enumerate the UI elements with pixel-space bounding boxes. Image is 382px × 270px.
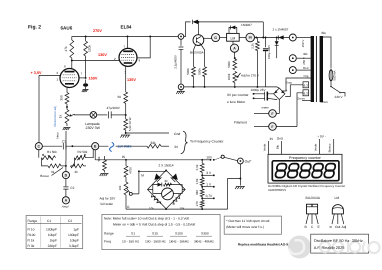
brace to frequency counter — [181, 131, 225, 153]
label Rosso — [40, 168, 63, 179]
svg-text:BU2X03A: BU2X03A — [190, 51, 205, 55]
svg-text:Verde: Verde — [263, 143, 267, 151]
svg-text:3,3µ/400V: 3,3µ/400V — [174, 55, 178, 69]
label IN node — [122, 155, 126, 159]
wire B+ top rail — [72, 36, 178, 38]
label 11V RMS — [118, 144, 133, 148]
wire coupling to EL84 grid — [72, 60, 120, 62]
svg-text:33k: 33k — [151, 141, 157, 145]
svg-text:47µ/160V: 47µ/160V — [107, 106, 121, 110]
svg-text:Distorsione adj: Distorsione adj — [53, 106, 57, 127]
wire IN to rectifier — [255, 37, 290, 39]
svg-text:130V: 130V — [98, 53, 107, 57]
svg-text:C2: C2 — [70, 186, 74, 190]
svg-text:Ampl: Ampl — [61, 205, 69, 209]
diode top feed 1N4007 — [193, 20, 199, 24]
ground screen bypass — [82, 90, 89, 93]
svg-text:10kpF: 10kpF — [48, 233, 57, 237]
wire out down — [239, 164, 241, 186]
svg-text:2k: 2k — [165, 179, 169, 183]
svg-text:+ 9V -: + 9V - — [317, 135, 326, 139]
attenuator tap 10V — [201, 159, 215, 161]
svg-text:3k: 3k — [75, 170, 79, 174]
label 10V tap — [206, 156, 213, 160]
svg-text:LM: LM — [231, 37, 236, 41]
svg-text:C2: C2 — [68, 219, 72, 223]
pot R1 50k — [39, 150, 57, 160]
label EL84 — [121, 25, 132, 30]
wire 6AU6 grid — [39, 74, 60, 76]
label 1000u 25V — [251, 88, 267, 92]
resistor 6,6k — [195, 160, 204, 176]
winding 6,3 a — [303, 82, 309, 88]
svg-text:Fig. 2: Fig. 2 — [28, 25, 41, 31]
voltage label 130V — [98, 53, 107, 57]
wire primary top — [323, 37, 331, 69]
wire counter in — [263, 141, 269, 154]
wire PSU bottom rail — [184, 86, 279, 88]
svg-text:Range: Range — [104, 232, 114, 236]
frequency counter module — [268, 154, 342, 183]
svg-text:5,6k 10 W: 5,6k 10 W — [128, 117, 132, 131]
transformer T1 core — [311, 36, 323, 102]
diode 1N914 a — [154, 174, 161, 183]
svg-text:2,2k: 2,2k — [251, 43, 255, 49]
svg-text:D: D — [65, 173, 68, 177]
resistor 10k bridge left — [149, 194, 161, 211]
svg-text:1k: 1k — [59, 114, 63, 118]
svg-text:Out: Out — [335, 225, 340, 229]
svg-text:680: 680 — [195, 190, 199, 195]
svg-text:To Frequency Counter: To Frequency Counter — [190, 140, 224, 144]
svg-text:100kpF: 100kpF — [46, 228, 57, 232]
svg-text:BU2X03A: BU2X03A — [306, 196, 321, 200]
svg-text:330pF: 330pF — [48, 244, 57, 248]
svg-text:2 x 1N4007: 2 x 1N4007 — [273, 28, 289, 32]
svg-text:R100: R100 — [28, 233, 36, 237]
label Distorsione adj — [53, 106, 57, 127]
resistor 10k bridge right — [171, 194, 185, 211]
label 6AU6 — [61, 26, 73, 31]
svg-text:X10: X10 — [152, 232, 158, 236]
svg-text:500k: 500k — [198, 68, 202, 75]
svg-text:Range: Range — [28, 219, 38, 223]
potentiometer 1k distorsione — [59, 107, 75, 126]
svg-text:Verde: Verde — [314, 143, 318, 151]
label 2 X 1N914 — [159, 163, 174, 167]
svg-text:Out*: Out* — [245, 160, 252, 164]
meter bridge diamond — [148, 170, 186, 209]
diode 1N4007 over LM — [229, 23, 252, 34]
label C1 — [62, 140, 66, 144]
resistor 3k left — [42, 158, 66, 174]
svg-text:meter: meter — [262, 105, 270, 109]
svg-text:Adj: Adj — [342, 225, 347, 229]
svg-text:R 3k: R 3k — [28, 244, 35, 248]
svg-text:Gray: Gray — [286, 81, 293, 85]
wire secondary 250V top — [297, 37, 311, 39]
svg-text:G: G — [214, 36, 217, 40]
resistor 2k bridge — [148, 179, 186, 193]
resistor 4700 — [124, 160, 133, 182]
svg-text:250 V: 250 V — [301, 40, 305, 48]
voltage label 270V — [93, 29, 102, 33]
node ground junction — [125, 132, 127, 134]
svg-text:Blk: Blk — [304, 52, 309, 56]
svg-text:270: 270 — [195, 201, 199, 206]
svg-text:C1: C1 — [62, 140, 66, 144]
svg-text:10k: 10k — [118, 185, 122, 190]
attenuator tap 3V — [201, 171, 215, 176]
voltage label +3,5V — [31, 71, 43, 75]
svg-text:Gnd: Gnd — [174, 132, 180, 136]
svg-text:100k: 100k — [227, 73, 231, 80]
svg-text:Hz-50MHz Digital LCD Crystal O: Hz-50MHz Digital LCD Crystal Oscillator … — [268, 184, 345, 188]
svg-text:R2 50k: R2 50k — [78, 150, 88, 154]
diode HV 1N4007 b — [275, 38, 279, 59]
svg-text:X100: X100 — [175, 232, 183, 236]
label Filament — [234, 120, 247, 124]
svg-text:Bianco: Bianco — [328, 143, 332, 152]
node 6AU6 screen — [79, 77, 87, 79]
resistor 5,6k 10W — [124, 115, 132, 133]
svg-text:M: M — [141, 174, 144, 178]
note out max box — [224, 216, 281, 234]
resistor 56 EL84 cathode — [118, 66, 128, 115]
sine source symbol — [110, 142, 114, 151]
resistor 270 — [195, 198, 204, 209]
svg-text:B: B — [94, 144, 97, 148]
resistor 500k adj — [227, 59, 237, 70]
svg-text:Freq: Freq — [104, 240, 111, 244]
ground PSU rail — [176, 84, 185, 94]
capacitor filter b — [253, 96, 278, 109]
svg-text:1,8k: 1,8k — [195, 178, 199, 184]
svg-text:120k: 120k — [88, 45, 92, 52]
svg-text:0,7V: 0,7V — [206, 194, 213, 198]
svg-text:47k: 47k — [64, 46, 68, 52]
svg-text:Filament: Filament — [234, 120, 247, 124]
svg-text:135V: 135V — [127, 78, 136, 82]
svg-text:Adj for 10V: Adj for 10V — [100, 197, 117, 201]
terminal G — [204, 33, 220, 41]
attenuator tap 0,7V — [201, 194, 215, 199]
pot R2 50k — [75, 150, 94, 160]
svg-text:Oscillatore BF 50 Hz- 30kHz: Oscillatore BF 50 Hz- 30kHz — [314, 238, 363, 243]
terminal A out — [61, 197, 70, 209]
attenuator tap 1V — [201, 182, 215, 187]
notes box — [102, 214, 220, 249]
svg-text:9V per counter: 9V per counter — [227, 93, 250, 97]
svg-text:4700: 4700 — [129, 167, 133, 174]
svg-text:Org: Org — [304, 74, 309, 78]
svg-text:3,3kpF: 3,3kpF — [69, 244, 79, 248]
resistor 2,2k — [251, 38, 260, 87]
wire IN rail — [105, 159, 203, 161]
svg-text:10 - 160 Hz: 10 - 160 Hz — [122, 240, 139, 244]
terminal D — [62, 166, 69, 179]
wire grid to node C — [38, 75, 40, 143]
svg-text:6,3: 6,3 — [304, 92, 309, 96]
node 6AU6 plate — [71, 60, 73, 62]
package BU2X03A — [305, 204, 321, 229]
svg-text:Rosso: Rosso — [40, 174, 49, 178]
svg-text:Red: Red — [303, 66, 309, 70]
label BU2X03A pkg — [306, 196, 321, 200]
lamp Lampada 230V 3W — [85, 112, 101, 130]
wire secondary green — [297, 97, 311, 101]
resistor 500k right — [198, 45, 207, 87]
svg-text:56: 56 — [118, 95, 122, 99]
svg-text:A: A — [65, 199, 68, 203]
label Adj for 10V — [100, 197, 117, 207]
diode HV 1N4007 a — [278, 35, 283, 39]
wire pot wiper to lamp — [75, 113, 91, 116]
label M node — [141, 174, 144, 178]
svg-text:10V: 10V — [206, 156, 213, 160]
svg-text:10k: 10k — [180, 207, 185, 211]
wire bridge feeds — [0, 0, 1, 1]
resistor 50k to ground — [95, 150, 108, 176]
svg-text:Note: Meter full scale= 10 vo: Note: Meter full scale= 10 volt Out & st… — [104, 217, 189, 221]
svg-text:C1: C1 — [47, 219, 51, 223]
svg-text:C: C — [37, 144, 40, 148]
meter movement M — [162, 188, 174, 200]
svg-text:Blu: Blu — [322, 31, 327, 35]
svg-text:* Out max 11 Volt open circuit: * Out max 11 Volt open circuit — [226, 219, 269, 223]
svg-text:6,6k: 6,6k — [195, 164, 199, 170]
label aliexpress — [268, 184, 345, 192]
svg-text:100µ 400V: 100µ 400V — [267, 45, 271, 59]
svg-text:Meter on = 0db = 5 Volt Out &: Meter on = 0db = 5 Volt Out & step di 1,… — [113, 222, 195, 226]
capacitor C1 — [42, 143, 91, 150]
svg-text:A.F. Rinaldo 2025: A.F. Rinaldo 2025 — [314, 245, 345, 250]
potentiometer 100k Adj270V — [227, 72, 260, 87]
label 2 x 1N4007 — [273, 28, 289, 32]
svg-text:R 10: R 10 — [28, 228, 35, 232]
bridge rectifier filament — [274, 88, 288, 99]
label Blk — [304, 52, 309, 56]
svg-text:1kHz - 16kHz: 1kHz - 16kHz — [169, 240, 189, 244]
capacitor 100u400V — [263, 37, 271, 87]
wire M to bridge — [139, 170, 167, 172]
wire counter gnd — [276, 141, 282, 154]
ground out jack — [235, 187, 245, 190]
svg-text:270V: 270V — [93, 29, 102, 33]
tube EL84 V2 — [114, 37, 141, 75]
wire Gnd to counter — [126, 132, 181, 136]
svg-text:Adj for 270 V: Adj for 270 V — [241, 74, 260, 78]
label 250V a — [301, 40, 305, 48]
svg-text:Gnd: Gnd — [277, 137, 283, 141]
svg-text:2 X 1N914: 2 X 1N914 — [159, 163, 174, 167]
svg-text:1kpF: 1kpF — [50, 238, 57, 242]
svg-text:500k: 500k — [186, 68, 190, 75]
svg-text:ALIEXPRESS: ALIEXPRESS — [268, 188, 286, 192]
wire EL84 screen — [137, 37, 150, 58]
svg-text:In: In — [330, 225, 333, 229]
svg-text:R 1k: R 1k — [28, 238, 35, 242]
wire secondary org — [282, 74, 310, 91]
ground 1k pot — [63, 128, 71, 131]
switch mains — [330, 81, 345, 99]
regulator LM U1 — [227, 33, 240, 41]
wire top feed — [197, 21, 263, 38]
terminal HV3 — [289, 67, 296, 74]
svg-text:150V: 150V — [89, 77, 98, 81]
fuse 500mA — [329, 70, 337, 81]
label Blu — [322, 31, 327, 35]
svg-text:Replica modificata Heathkit AG: Replica modificata Heathkit AG-9A) — [238, 242, 291, 246]
terminal A — [230, 41, 238, 59]
terminal F filament 1 — [254, 100, 279, 118]
svg-text:Nero: Nero — [56, 132, 60, 139]
label LM pkg — [335, 196, 340, 200]
label replica — [238, 242, 291, 246]
svg-text:X1: X1 — [131, 232, 135, 236]
wire secondary gray — [285, 81, 303, 97]
svg-text:Blu: Blu — [276, 145, 280, 150]
svg-text:10kpF: 10kpF — [70, 238, 79, 242]
svg-text:230V 3W: 230V 3W — [86, 126, 101, 130]
svg-text:390: 390 — [59, 95, 63, 101]
terminal B — [92, 143, 99, 150]
svg-text:full scale: full scale — [101, 202, 114, 206]
svg-text:50k: 50k — [97, 156, 101, 161]
label +9V- — [317, 135, 326, 139]
wire counter +9 — [314, 139, 320, 154]
wire out to G rail — [228, 179, 241, 210]
svg-text:Green: Green — [297, 97, 305, 101]
package LM317 — [330, 205, 347, 229]
svg-text:3k: 3k — [51, 170, 55, 174]
resistor 120k — [84, 37, 92, 78]
svg-text:+ 3,5V: + 3,5V — [31, 71, 43, 75]
label 9V per counter — [227, 93, 255, 104]
wire bridge bottom — [165, 208, 167, 210]
table ranges — [26, 216, 83, 249]
transistor BU2X03A Q1 — [190, 22, 205, 55]
svg-text:6AU6: 6AU6 — [61, 26, 73, 31]
voltage label 135V — [127, 78, 136, 82]
resistor 390 cathode — [59, 88, 69, 108]
svg-text:10k: 10k — [149, 207, 154, 211]
svg-text:Brwn: Brwn — [321, 100, 328, 104]
svg-text:Frequency counter: Frequency counter — [289, 156, 321, 160]
resistor 1,8k — [195, 175, 204, 186]
svg-text:100kpF: 100kpF — [68, 233, 79, 237]
label Nero — [56, 132, 60, 139]
wire lamp to cap — [97, 114, 108, 116]
terminal HV1 — [289, 34, 296, 41]
terminal C — [35, 143, 42, 150]
connector B+ feedthrough — [178, 34, 184, 40]
svg-text:A: A — [233, 46, 236, 50]
tube 6AU6 V1 — [57, 61, 83, 88]
svg-text:250 V: 250 V — [302, 57, 306, 65]
capacitor C2 — [63, 179, 74, 197]
svg-text:100 - 1600 Hz: 100 - 1600 Hz — [145, 240, 166, 244]
label IN Gnd — [270, 137, 283, 141]
svg-text:500 mA: 500 mA — [333, 70, 337, 80]
wire counter -9 — [328, 139, 334, 154]
resistor 47k — [64, 37, 74, 61]
svg-text:1µF: 1µF — [73, 228, 79, 232]
svg-text:R1 50k: R1 50k — [47, 150, 57, 154]
svg-text:e luce Meter: e luce Meter — [227, 100, 246, 104]
connector Out — [224, 157, 252, 164]
voltage label 150V — [89, 77, 98, 81]
rotary selector O — [216, 155, 225, 159]
capacitor filter a — [253, 92, 274, 96]
wire secondary 250V bottom — [297, 57, 311, 59]
wire G to LM — [220, 37, 227, 39]
watermark logo — [288, 236, 311, 259]
resistor 3k right — [71, 158, 87, 174]
winding 6,3 b — [303, 90, 309, 96]
wire pot feedback — [65, 131, 67, 161]
capacitor screen bypass — [83, 80, 88, 90]
wire G rail — [126, 205, 228, 210]
svg-text:3kHz - 48kHz: 3kHz - 48kHz — [194, 240, 214, 244]
label IN counter — [175, 145, 179, 149]
svg-text:LM: LM — [335, 196, 340, 200]
node wien center — [65, 161, 67, 167]
resistor 680 — [195, 187, 204, 199]
label 250V b — [302, 57, 306, 65]
svg-text:230 V: 230 V — [335, 95, 344, 99]
svg-text:EL84: EL84 — [121, 25, 132, 30]
svg-text:500k: 500k — [227, 61, 231, 68]
node cathode junction — [66, 106, 68, 108]
potentiometer 10k meter adj — [118, 182, 130, 209]
resistor 500k left — [186, 45, 195, 87]
svg-text:6,3: 6,3 — [304, 84, 309, 88]
diode 1N914 b — [171, 174, 178, 183]
resistor 33k — [147, 141, 169, 148]
terminal HV2 — [289, 55, 296, 62]
wire B to 33k — [99, 145, 147, 147]
capacitor 47u160V — [107, 106, 126, 119]
wire secondary red — [297, 66, 311, 70]
rotary wiper meter — [129, 170, 140, 195]
terminal IN — [239, 33, 254, 42]
svg-text:(Meter will move over f.s.): (Meter will move over f.s.) — [226, 225, 264, 229]
label Brwn — [321, 100, 328, 104]
node EL84 cathode net — [125, 114, 127, 116]
terminal F filament 2 — [254, 93, 303, 131]
svg-text:1N4007: 1N4007 — [241, 23, 252, 27]
title box — [311, 234, 380, 253]
label Fig. 2 — [28, 25, 41, 31]
svg-text:X300: X300 — [201, 232, 209, 236]
capacitor 3,3u400V — [174, 22, 191, 84]
ground EL84 cathode — [120, 135, 130, 138]
